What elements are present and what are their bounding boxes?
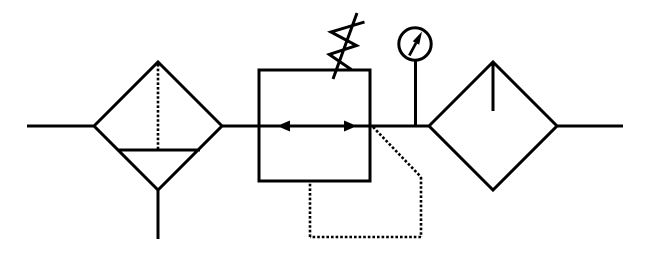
- wire: outlet line: [556, 125, 623, 128]
- pilot line: diagonal dotted: [373, 127, 421, 177]
- filter F1: dotted element line: [157, 64, 160, 150]
- regulator R1: flow path line: [259, 125, 370, 128]
- filter F1: diamond body: [94, 62, 222, 190]
- wire: inlet line: [27, 125, 95, 128]
- wire: drain line: [157, 189, 160, 239]
- gauge G1: needle: [409, 43, 416, 56]
- pilot line: right vertical dotted: [420, 177, 423, 237]
- pilot line: bottom horizontal dotted: [310, 236, 421, 239]
- gauge G1: needle arrowhead: [413, 32, 422, 45]
- lubricator L1: drip line: [492, 63, 495, 111]
- filter F1: baffle line: [118, 149, 200, 152]
- wire: filter to regulator: [221, 125, 260, 128]
- regulator R1: left arrowhead: [277, 121, 290, 132]
- wire: regulator to lubricator: [370, 125, 430, 128]
- lubricator L1: diamond body: [429, 62, 557, 190]
- regulator R1: body box: [259, 70, 370, 181]
- regulator R1: adjustment stem: [333, 13, 357, 79]
- regulator R1: adjustment spring: [329, 22, 364, 70]
- gauge G1: dial circle: [399, 28, 431, 60]
- gauge G1: stem: [414, 60, 417, 126]
- pilot line: left vertical dotted: [309, 181, 312, 237]
- regulator R1: right arrowhead: [344, 121, 357, 132]
